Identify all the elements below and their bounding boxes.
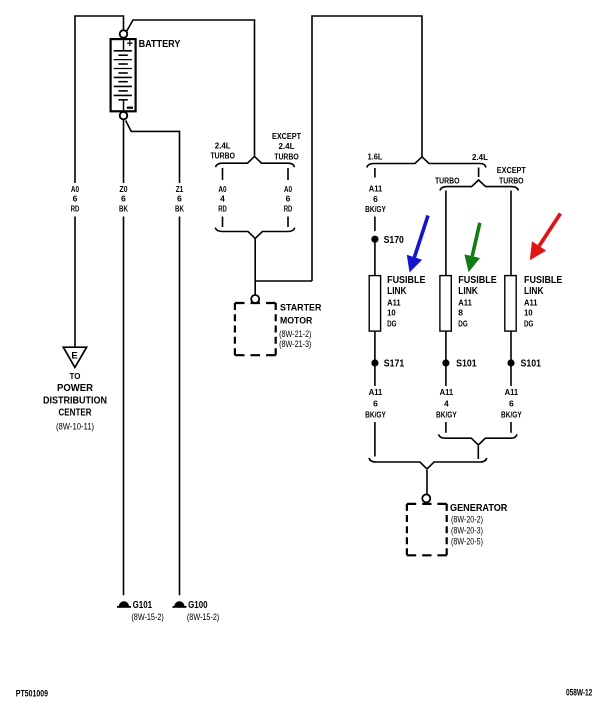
fusible link 3 labels (524, 275, 563, 297)
wire label A11 4 BK/GY (below S101 mid) (436, 388, 457, 420)
wire starter node horizontal (255, 280, 312, 282)
svg-text:A0: A0 (71, 185, 80, 194)
starter motor box (235, 303, 276, 355)
svg-text:A11: A11 (369, 185, 383, 194)
splice brace: 1.6L/2.4L split (367, 157, 486, 168)
red callout arrow (530, 214, 561, 261)
engine label 2.4L TURBO (210, 141, 235, 160)
svg-text:FUSIBLE: FUSIBLE (524, 275, 563, 286)
svg-text:6: 6 (121, 195, 126, 204)
svg-text:058W-12: 058W-12 (566, 688, 592, 699)
splice S170 (371, 236, 378, 243)
svg-text:EXCEPT: EXCEPT (272, 132, 301, 141)
svg-text:TURBO: TURBO (210, 152, 235, 161)
svg-text:+: + (127, 38, 133, 50)
starter connector circle (251, 295, 259, 303)
splice brace: big merge to generator (369, 458, 487, 469)
svg-text:8: 8 (458, 309, 463, 318)
svg-text:(8W-10-11): (8W-10-11) (56, 422, 94, 432)
svg-text:BATTERY: BATTERY (139, 38, 181, 50)
wire battery+ to PDC top run (75, 16, 124, 183)
wire A11 right to small merge (510, 422, 512, 433)
engine label EXCEPT TURBO (497, 166, 526, 186)
svg-text:S171: S171 (384, 359, 405, 370)
dash starter branch right upper (287, 168, 289, 180)
svg-text:BK/GY: BK/GY (436, 411, 457, 420)
svg-text:LINK: LINK (387, 286, 407, 297)
svg-text:2.4L: 2.4L (215, 141, 231, 150)
dash starter branch right lower (287, 217, 289, 228)
fusible link 1 labels (387, 275, 426, 297)
wire big merge to generator connector (426, 470, 428, 494)
svg-text:6: 6 (509, 399, 514, 408)
svg-text:TO: TO (70, 372, 81, 381)
wire battery- to G101 upper (123, 120, 125, 184)
svg-text:RD: RD (284, 205, 293, 214)
wire label Z0 6 BK (119, 185, 128, 214)
svg-text:6: 6 (373, 399, 378, 408)
svg-text:S170: S170 (384, 235, 405, 246)
svg-text:Z0: Z0 (119, 185, 128, 194)
wire label A11 6 BK/GY (below S101 right) (501, 388, 522, 420)
svg-text:FUSIBLE: FUSIBLE (458, 275, 497, 286)
wire label A11 6 BK/GY (1.6L) (365, 185, 386, 215)
generator connector circle (422, 494, 430, 502)
dash 1.6L branch lower to S170 (374, 217, 376, 232)
svg-text:6: 6 (286, 195, 291, 204)
svg-text:DG: DG (458, 319, 467, 328)
wire label Z1 6 BK (175, 185, 184, 214)
svg-text:RD: RD (71, 205, 80, 214)
wire A0 RD lower segment to E triangle (74, 217, 76, 348)
svg-text:LINK: LINK (524, 286, 544, 297)
svg-text:BK/GY: BK/GY (365, 205, 386, 214)
svg-text:DISTRIBUTION: DISTRIBUTION (43, 395, 107, 406)
svg-text:TURBO: TURBO (274, 153, 299, 162)
svg-text:DG: DG (387, 319, 396, 328)
svg-text:MOTOR: MOTOR (280, 315, 312, 326)
svg-text:A11: A11 (524, 299, 538, 308)
wire Z1 to G100 lower (179, 217, 181, 596)
svg-text:(8W-15-2): (8W-15-2) (187, 612, 219, 622)
wire Z0 to G101 lower (123, 217, 125, 596)
wire starter node to generator feed top run (312, 16, 422, 281)
fusible link 2 labels (458, 275, 497, 297)
generator box (407, 504, 447, 555)
svg-text:BK: BK (119, 205, 128, 214)
wire S171 to label (374, 367, 376, 387)
fusible link FL2 (440, 276, 451, 332)
dash 2.4L to turbo split (478, 168, 480, 178)
svg-text:1.6L: 1.6L (368, 153, 383, 162)
svg-text:A11: A11 (369, 388, 383, 397)
svg-text:A0: A0 (284, 185, 293, 194)
svg-text:DG: DG (524, 319, 533, 328)
wire label A11 6 BK/GY (below S171) (365, 388, 386, 420)
svg-text:(8W-21-2): (8W-21-2) (279, 329, 311, 339)
svg-text:STARTER: STARTER (280, 303, 322, 314)
wire label A0 4 RD (218, 185, 227, 214)
svg-text:6: 6 (177, 195, 182, 204)
wire A11 mid to small merge (445, 422, 447, 433)
svg-text:S101: S101 (456, 359, 477, 370)
svg-text:GENERATOR: GENERATOR (450, 502, 508, 514)
svg-text:A0: A0 (218, 185, 227, 194)
wire label A0 6 RD (starter right) (284, 185, 293, 214)
svg-text:(8W-20-5): (8W-20-5) (451, 537, 483, 547)
wire except-turbo branch to fusible link 3 (510, 191, 512, 276)
splice S101 right (507, 359, 514, 366)
svg-text:BK/GY: BK/GY (501, 411, 522, 420)
svg-text:10: 10 (524, 309, 533, 318)
dash starter branch left lower (222, 217, 224, 228)
wire S101 right to label (510, 367, 512, 387)
svg-text:G100: G100 (188, 600, 208, 611)
svg-text:A11: A11 (458, 299, 472, 308)
svg-text:BK: BK (175, 205, 184, 214)
fusible link FL1 (369, 276, 380, 332)
wire fusible link 1 to S171 (374, 331, 376, 359)
E triangle to power distribution center (63, 347, 86, 367)
wire S101 mid to label (445, 367, 447, 387)
svg-text:G101: G101 (133, 600, 153, 611)
battery B1 (111, 30, 136, 119)
splice brace: starter merge (215, 228, 295, 239)
svg-text:POWER: POWER (57, 383, 94, 394)
wire label A0 6 RD (left) (71, 185, 80, 214)
ground G101 (117, 600, 164, 622)
engine label EXCEPT 2.4L TURBO (272, 132, 301, 162)
svg-text:4: 4 (220, 195, 225, 204)
wire A11 left to big merge (374, 422, 376, 457)
wire battery- to Z1 branch (126, 121, 180, 184)
splice S171 (371, 359, 378, 366)
svg-text:RD: RD (218, 205, 227, 214)
svg-text:(8W-15-2): (8W-15-2) (131, 612, 163, 622)
blue callout arrow (407, 216, 428, 273)
fusible link FL3 (505, 276, 516, 332)
svg-text:TURBO: TURBO (435, 177, 460, 186)
wire starter merge to connector (254, 239, 256, 295)
svg-text:(8W-21-3): (8W-21-3) (279, 339, 311, 349)
splice brace: starter split (216, 156, 295, 167)
dash starter branch left upper (222, 168, 224, 180)
wire turbo branch to fusible link 2 (445, 191, 447, 276)
wire fusible link 3 to S101 (510, 331, 512, 359)
svg-text:6: 6 (73, 195, 78, 204)
svg-text:BK/GY: BK/GY (365, 411, 386, 420)
splice brace: mid+right merge (439, 434, 518, 445)
svg-text:2.4L: 2.4L (472, 153, 488, 162)
dash 1.6L branch upper (374, 168, 376, 178)
svg-text:E: E (71, 351, 77, 362)
splice S101 mid (442, 359, 449, 366)
splice brace: turbo/except-turbo split (440, 180, 518, 191)
svg-text:A11: A11 (387, 299, 401, 308)
svg-text:6: 6 (373, 195, 378, 204)
svg-text:A11: A11 (440, 388, 454, 397)
svg-text:10: 10 (387, 309, 396, 318)
svg-text:FUSIBLE: FUSIBLE (387, 275, 426, 286)
green callout arrow (464, 223, 480, 272)
svg-text:TURBO: TURBO (499, 177, 524, 186)
svg-text:Z1: Z1 (176, 185, 184, 194)
wire small merge to big merge (477, 446, 479, 459)
wire S170 to fusible link 1 (374, 242, 376, 276)
wire battery+ to starter split (126, 20, 254, 156)
svg-text:LINK: LINK (458, 286, 478, 297)
wire fusible link 2 to S101 (445, 331, 447, 359)
svg-text:CENTER: CENTER (59, 407, 93, 418)
svg-text:S101: S101 (521, 359, 542, 370)
svg-text:PT501009: PT501009 (16, 688, 48, 699)
svg-text:2.4L: 2.4L (279, 142, 295, 151)
ground G100 (173, 600, 220, 622)
svg-text:(8W-20-3): (8W-20-3) (451, 526, 483, 536)
svg-text:EXCEPT: EXCEPT (497, 166, 526, 175)
svg-text:A11: A11 (505, 388, 519, 397)
svg-text:(8W-20-2): (8W-20-2) (451, 515, 483, 525)
svg-text:4: 4 (444, 399, 449, 408)
